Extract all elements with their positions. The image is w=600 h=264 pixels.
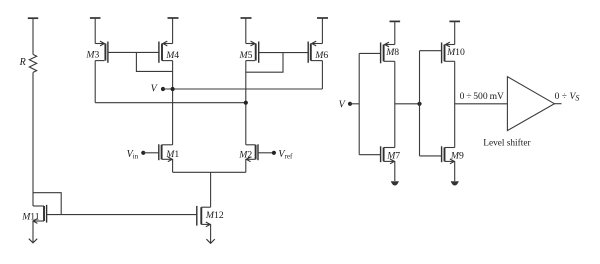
wire level shifter output: [554, 103, 561, 105]
wire gate-to-drain bracket M5: [246, 53, 283, 72]
wire node V horizontal: [163, 88, 322, 90]
wire M3 drain down: [94, 61, 96, 103]
transistor M3: [85, 18, 108, 63]
wire Vin to M1 gate: [143, 152, 158, 154]
node V input of inverter: [339, 100, 353, 111]
wire M5 drain to M2 drain: [245, 61, 247, 145]
svg-text:R: R: [19, 57, 26, 68]
wire M1 source down: [172, 159, 174, 172]
node Vref: [272, 149, 293, 160]
node junction M4/M1: [171, 87, 175, 91]
svg-text:M10: M10: [446, 47, 465, 58]
wire M4 drain to M1 drain: [172, 61, 174, 145]
transistor M9: [420, 146, 464, 164]
wire gate line M5-M6: [259, 52, 309, 54]
svg-text:M1: M1: [165, 149, 179, 160]
transistor M1: [159, 144, 180, 161]
wire gate-to-drain bracket M4: [136, 52, 172, 71]
transistor M7: [359, 146, 400, 164]
svg-text:M6: M6: [314, 50, 328, 61]
wire inverter-1 output vertical: [394, 61, 396, 147]
transistor M8: [359, 21, 400, 63]
svg-text:Level shifter: Level shifter: [483, 138, 531, 149]
op-amp level shifter: [483, 77, 554, 149]
wire M6 drain down to node V: [321, 61, 323, 89]
ground arrow M11: [29, 221, 37, 243]
wire inverter-2 output vertical: [454, 61, 456, 147]
wire inverter-1 input vertical: [358, 53, 360, 154]
wire R to M11: [32, 72, 34, 206]
transistor M10: [420, 21, 466, 63]
wire mirror gate line M11-M12: [47, 214, 197, 216]
node junction M5/M2: [244, 101, 248, 105]
wire gate line M3-M4: [108, 51, 159, 53]
ground arrow M12: [206, 224, 214, 243]
node junction inverter-2 input: [417, 102, 421, 106]
svg-text:0 ÷ 500 mV: 0 ÷ 500 mV: [460, 91, 504, 102]
wire V to inverter input: [350, 103, 359, 105]
ground M9: [451, 161, 459, 185]
svg-text:M8: M8: [385, 47, 399, 58]
svg-text:M7: M7: [386, 150, 400, 161]
wire tail to M12 drain: [210, 172, 212, 207]
transistor M11: [21, 205, 46, 224]
wire M2 gate to Vref: [258, 152, 274, 154]
svg-text:M4: M4: [165, 50, 179, 61]
wire diff pair tail: [173, 171, 246, 173]
wire inverter-1 output to inverter-2 input: [395, 103, 420, 105]
wire inverter-2 input vertical: [419, 51, 421, 156]
svg-text:M2: M2: [238, 150, 252, 161]
transistor M2: [238, 144, 258, 161]
ground M7: [391, 161, 399, 185]
wire M11 gate-drain loop: [33, 193, 61, 215]
node V: [151, 84, 165, 95]
transistor M6: [308, 18, 328, 63]
svg-text:M11: M11: [21, 211, 40, 222]
wire M2 source down: [245, 159, 247, 172]
node Vin: [127, 149, 146, 160]
transistor M5: [239, 18, 259, 63]
wire inverter-2 output to level shifter: [455, 103, 508, 105]
resistor R1: [19, 18, 39, 72]
transistor M4: [159, 18, 179, 63]
svg-text:M3: M3: [85, 49, 99, 60]
svg-text:M9: M9: [450, 150, 464, 161]
svg-text:M5: M5: [239, 50, 253, 61]
wire M3 drain to M5 drain: [95, 102, 246, 104]
transistor M12: [197, 206, 224, 227]
svg-text:M12: M12: [205, 210, 224, 221]
